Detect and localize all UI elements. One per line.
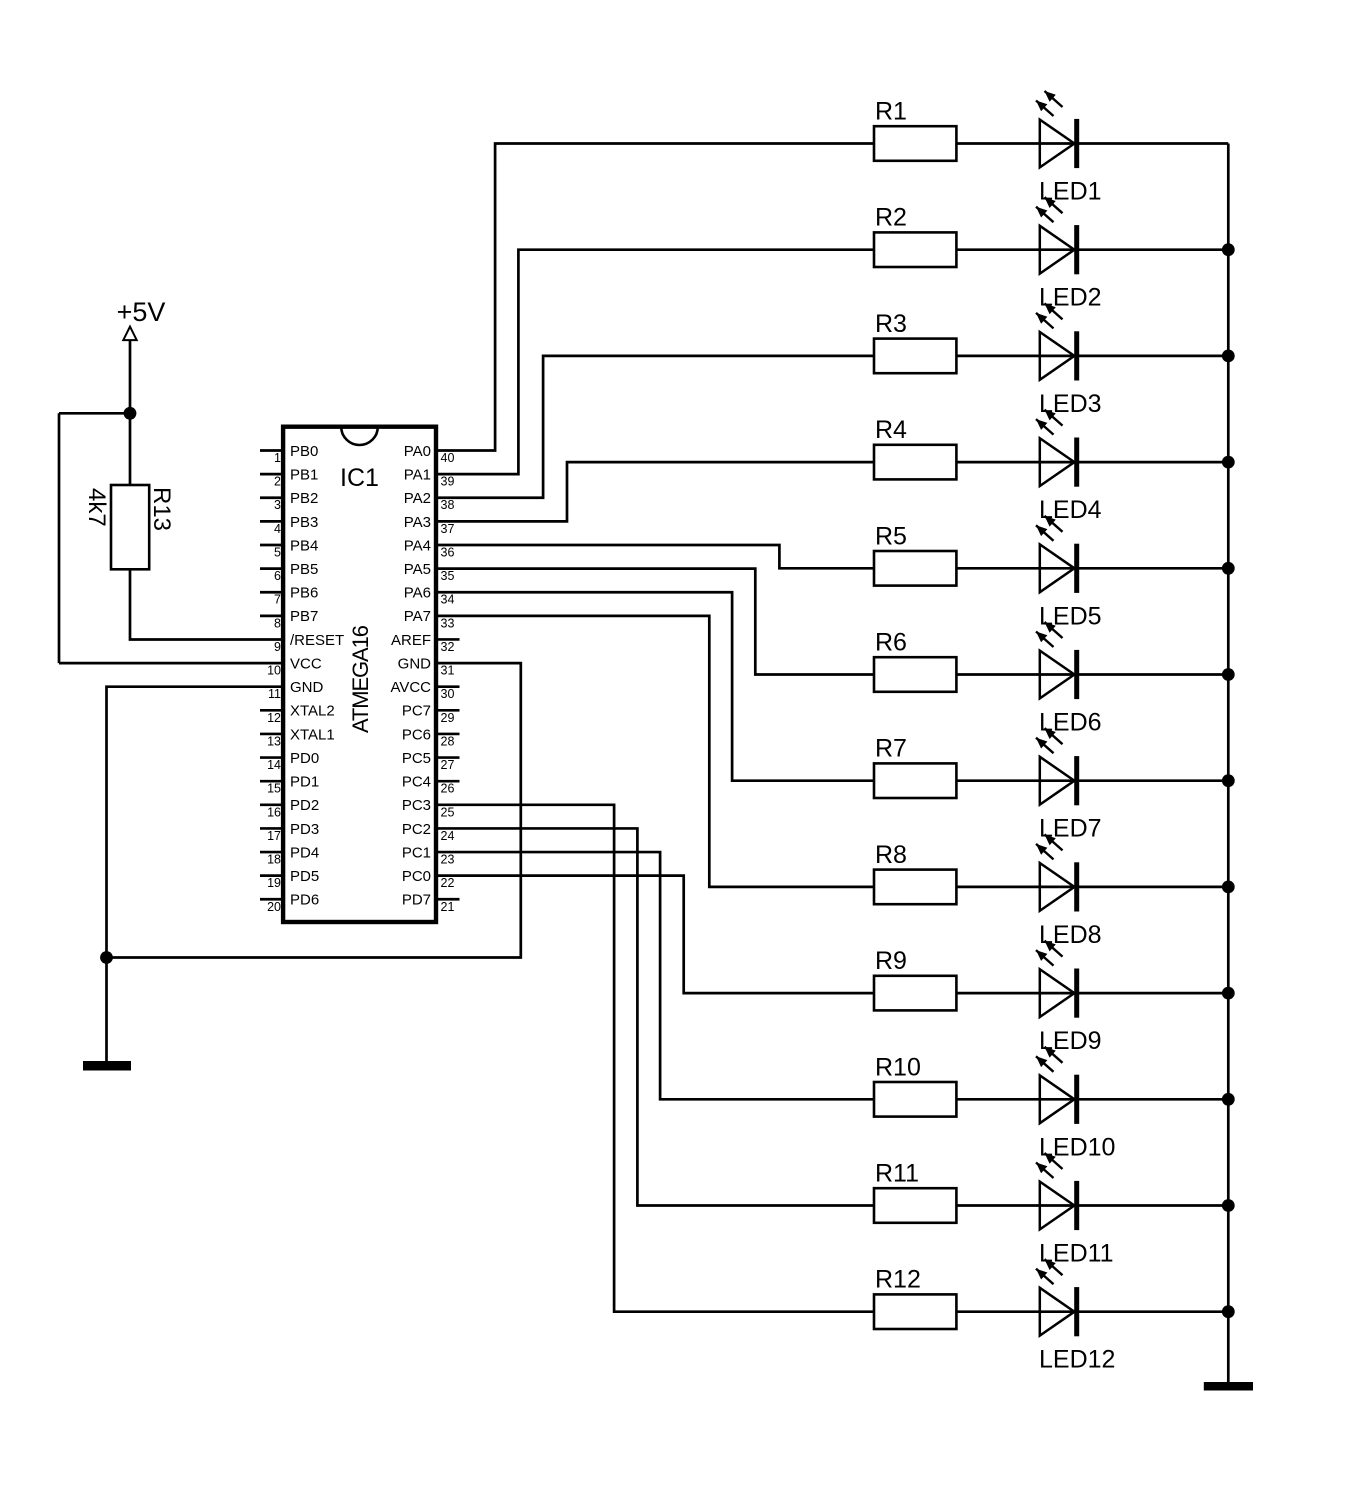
svg-text:37: 37 <box>441 522 455 536</box>
svg-text:R3: R3 <box>875 310 907 338</box>
svg-text:27: 27 <box>441 758 455 772</box>
svg-text:8: 8 <box>274 616 281 630</box>
svg-text:R6: R6 <box>875 629 907 657</box>
svg-text:32: 32 <box>441 640 455 654</box>
svg-text:ATMEGA16: ATMEGA16 <box>348 625 373 733</box>
svg-text:35: 35 <box>441 569 455 583</box>
svg-text:R10: R10 <box>875 1053 921 1081</box>
svg-text:31: 31 <box>441 664 455 678</box>
svg-text:PD0: PD0 <box>290 750 319 767</box>
svg-text:4k7: 4k7 <box>83 488 110 527</box>
svg-text:9: 9 <box>274 640 281 654</box>
svg-text:24: 24 <box>441 829 455 843</box>
svg-text:20: 20 <box>267 900 281 914</box>
svg-text:PD4: PD4 <box>290 844 319 861</box>
svg-text:PC0: PC0 <box>402 868 431 885</box>
svg-text:PC1: PC1 <box>402 844 431 861</box>
svg-text:PD2: PD2 <box>290 797 319 814</box>
svg-text:3: 3 <box>274 498 281 512</box>
svg-text:PC5: PC5 <box>402 750 431 767</box>
svg-text:21: 21 <box>441 900 455 914</box>
svg-text:5: 5 <box>274 545 281 559</box>
svg-text:R4: R4 <box>875 416 907 444</box>
svg-text:16: 16 <box>267 805 281 819</box>
svg-text:XTAL2: XTAL2 <box>290 703 335 720</box>
svg-text:PC3: PC3 <box>402 797 431 814</box>
svg-text:PC4: PC4 <box>402 774 431 791</box>
svg-text:23: 23 <box>441 853 455 867</box>
svg-text:AREF: AREF <box>391 632 431 649</box>
svg-text:14: 14 <box>267 758 281 772</box>
svg-text:LED12: LED12 <box>1039 1346 1115 1374</box>
svg-text:30: 30 <box>441 687 455 701</box>
svg-text:R13: R13 <box>148 487 175 531</box>
svg-text:PD1: PD1 <box>290 774 319 791</box>
svg-text:PA6: PA6 <box>404 585 431 602</box>
svg-text:PC6: PC6 <box>402 726 431 743</box>
svg-text:PA1: PA1 <box>404 467 431 484</box>
svg-text:R7: R7 <box>875 735 907 763</box>
svg-text:PB2: PB2 <box>290 490 318 507</box>
svg-text:34: 34 <box>441 593 455 607</box>
svg-text:19: 19 <box>267 876 281 890</box>
svg-text:VCC: VCC <box>290 655 322 672</box>
svg-text:R8: R8 <box>875 841 907 869</box>
svg-text:R2: R2 <box>875 204 907 232</box>
svg-text:33: 33 <box>441 616 455 630</box>
svg-text:PB0: PB0 <box>290 443 318 460</box>
svg-text:R11: R11 <box>875 1160 919 1188</box>
svg-text:39: 39 <box>441 475 455 489</box>
svg-text:PA4: PA4 <box>404 537 431 554</box>
svg-text:PC2: PC2 <box>402 821 431 838</box>
svg-text:PB4: PB4 <box>290 537 318 554</box>
svg-text:GND: GND <box>290 679 324 696</box>
svg-text:7: 7 <box>274 593 281 607</box>
svg-text:/RESET: /RESET <box>290 632 344 649</box>
svg-text:18: 18 <box>267 853 281 867</box>
svg-text:10: 10 <box>267 664 281 678</box>
svg-text:13: 13 <box>267 734 281 748</box>
svg-text:PA0: PA0 <box>404 443 431 460</box>
svg-text:17: 17 <box>267 829 281 843</box>
svg-text:28: 28 <box>441 734 455 748</box>
svg-text:11: 11 <box>268 687 281 701</box>
svg-text:38: 38 <box>441 498 455 512</box>
svg-text:4: 4 <box>274 522 281 536</box>
svg-text:26: 26 <box>441 782 455 796</box>
svg-text:36: 36 <box>441 545 455 559</box>
svg-text:PB1: PB1 <box>290 467 318 484</box>
svg-text:12: 12 <box>267 711 281 725</box>
svg-text:PA2: PA2 <box>404 490 431 507</box>
svg-text:40: 40 <box>441 451 455 465</box>
svg-text:25: 25 <box>441 805 455 819</box>
svg-text:PD5: PD5 <box>290 868 319 885</box>
svg-text:XTAL1: XTAL1 <box>290 726 335 743</box>
svg-text:PB3: PB3 <box>290 514 318 531</box>
svg-text:R12: R12 <box>875 1266 921 1294</box>
svg-text:PB5: PB5 <box>290 561 318 578</box>
svg-text:PC7: PC7 <box>402 703 431 720</box>
svg-text:GND: GND <box>398 655 432 672</box>
svg-text:PA5: PA5 <box>404 561 431 578</box>
svg-text:PB7: PB7 <box>290 608 318 625</box>
svg-text:PD6: PD6 <box>290 892 319 909</box>
svg-text:PD7: PD7 <box>402 892 431 909</box>
svg-text:PD3: PD3 <box>290 821 319 838</box>
svg-text:IC1: IC1 <box>340 464 379 492</box>
svg-text:15: 15 <box>267 782 281 796</box>
svg-text:1: 1 <box>274 451 281 465</box>
svg-text:2: 2 <box>274 475 281 489</box>
svg-text:AVCC: AVCC <box>390 679 431 696</box>
svg-text:6: 6 <box>274 569 281 583</box>
svg-text:R5: R5 <box>875 522 907 550</box>
svg-text:29: 29 <box>441 711 455 725</box>
svg-text:+5V: +5V <box>117 297 166 327</box>
svg-text:PA3: PA3 <box>404 514 431 531</box>
svg-text:22: 22 <box>441 876 455 890</box>
svg-text:R1: R1 <box>875 98 907 126</box>
svg-text:PA7: PA7 <box>404 608 431 625</box>
svg-text:PB6: PB6 <box>290 585 318 602</box>
svg-text:R9: R9 <box>875 947 907 975</box>
